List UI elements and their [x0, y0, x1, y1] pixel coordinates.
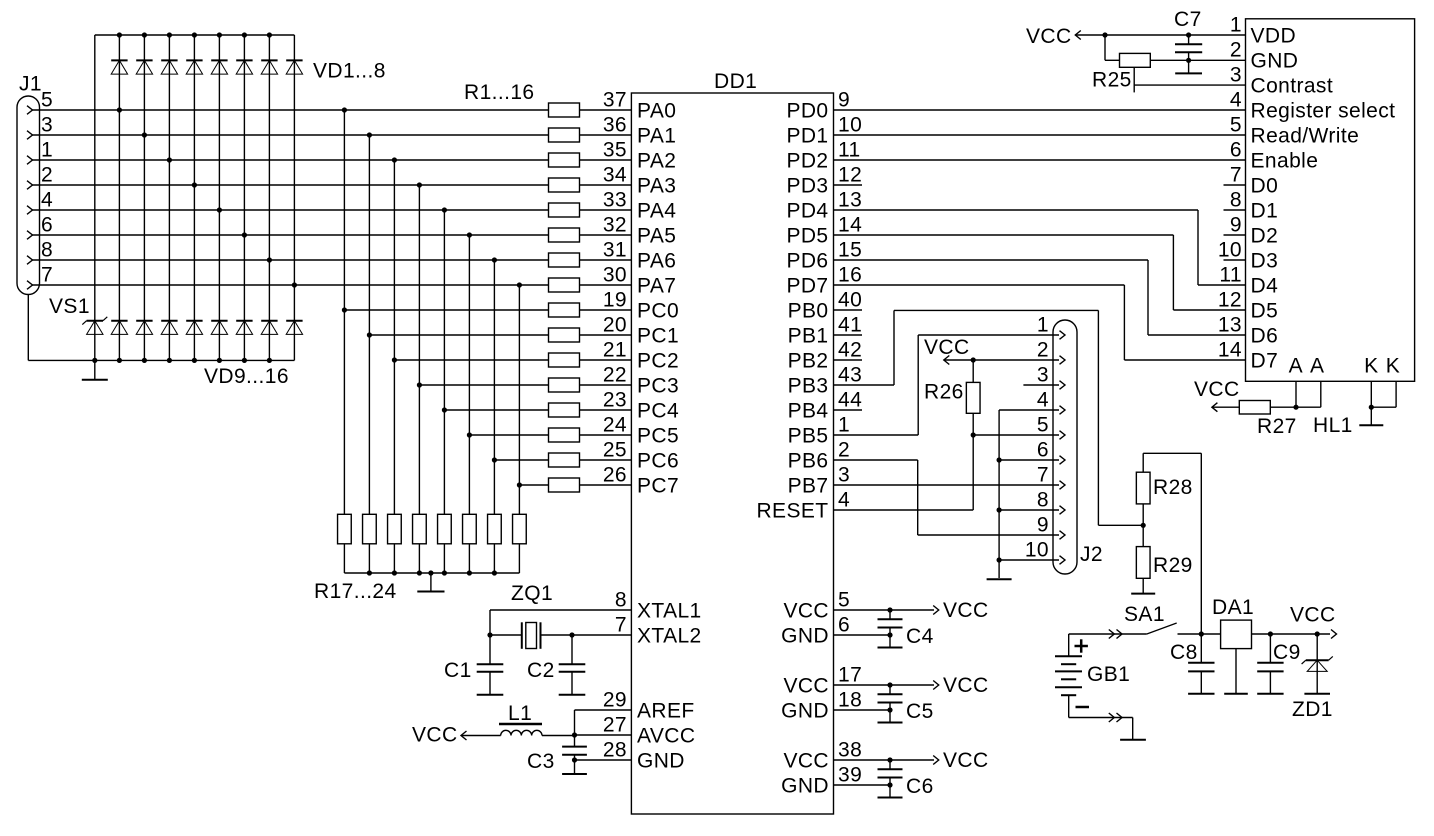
junction dots on top bus [117, 32, 272, 37]
svg-text:3: 3 [1037, 364, 1049, 387]
svg-text:10: 10 [1218, 239, 1242, 262]
battery GB1 [1055, 656, 1082, 695]
svg-text:2: 2 [1037, 339, 1049, 362]
ground at battery negative [1120, 739, 1146, 741]
J1 pin numbers 5 3 1 2 4 6 8 7 [41, 89, 53, 287]
svg-text:C1: C1 [444, 659, 472, 682]
svg-text:Contrast: Contrast [1251, 74, 1334, 97]
svg-text:D2: D2 [1251, 224, 1279, 247]
svg-text:PB7: PB7 [788, 474, 829, 497]
svg-text:3: 3 [1230, 64, 1242, 87]
wire AREF to AVCC node [575, 710, 632, 735]
LCD module body [1246, 19, 1415, 382]
svg-text:25: 25 [603, 439, 627, 462]
resistor R18 [363, 514, 377, 544]
svg-text:15: 15 [838, 239, 862, 262]
svg-text:L1: L1 [508, 702, 532, 725]
LCD pin labels [1251, 24, 1396, 372]
chip labels VCC GND [781, 674, 829, 722]
wire row PA3 [33, 182, 549, 187]
svg-text:33: 33 [603, 189, 627, 212]
connector J2 body [1053, 320, 1077, 574]
resistor R7 [549, 253, 580, 267]
wire RESET to R26 [834, 413, 974, 510]
svg-text:4: 4 [1037, 389, 1049, 412]
svg-text:2: 2 [1230, 39, 1242, 62]
svg-text:D1: D1 [1251, 199, 1279, 222]
svg-text:PA3: PA3 [637, 174, 676, 197]
wire VS1 column vertical [94, 35, 96, 380]
resistor R19 [388, 514, 402, 544]
svg-text:10: 10 [1025, 539, 1049, 562]
svg-text:VS1: VS1 [49, 295, 90, 318]
capacitor C9 [1257, 634, 1283, 671]
svg-text:PD0: PD0 [786, 99, 828, 122]
svg-text:PA6: PA6 [637, 249, 676, 272]
svg-text:PA1: PA1 [637, 124, 676, 147]
resistor R29 [1136, 547, 1150, 579]
svg-text:VCC: VCC [1026, 25, 1072, 48]
svg-text:22: 22 [603, 364, 627, 387]
wire row PA7 [33, 282, 549, 287]
wire row PA2 [33, 157, 549, 162]
wire VCC pin 5 [834, 606, 939, 615]
svg-text:D5: D5 [1251, 299, 1279, 322]
ground below C9 [1257, 671, 1283, 693]
ground below C1 [477, 672, 504, 695]
svg-text:29: 29 [603, 689, 627, 712]
wire VDD rail with VCC arrow [1075, 31, 1245, 40]
svg-text:HL1: HL1 [1313, 414, 1353, 437]
ground below C2 [559, 672, 586, 695]
wire DA1 output rail [1252, 630, 1337, 639]
svg-text:PD4: PD4 [786, 199, 828, 222]
resistor R23 [488, 514, 502, 544]
svg-text:8: 8 [615, 589, 627, 612]
wire PD0 to LCD Register select [834, 109, 1246, 111]
svg-text:8: 8 [1037, 489, 1049, 512]
wire PD4 to LCD D4 [834, 210, 1246, 285]
wire row PC7 [517, 482, 549, 487]
capacitor C5 [878, 685, 903, 710]
chip left pin numbers [603, 89, 627, 487]
capacitor C6 [878, 760, 903, 785]
svg-text:PA5: PA5 [637, 224, 676, 247]
wire row PA6 [33, 257, 549, 262]
resistor R15 [549, 453, 580, 467]
wire J2 pin5 [973, 434, 1059, 436]
resistor R9 [549, 303, 580, 317]
svg-text:SA1: SA1 [1124, 603, 1165, 626]
capacitor C7 [1175, 35, 1202, 60]
svg-text:PB0: PB0 [788, 299, 829, 322]
ground below C7 [1175, 60, 1202, 73]
crystal ZQ1 [522, 622, 541, 649]
inductor L1 [501, 730, 542, 735]
wire PD1 to LCD Read/Write [834, 134, 1246, 136]
svg-text:A: A [1289, 355, 1303, 378]
R25 wiper to Contrast [1134, 67, 1245, 92]
svg-text:D0: D0 [1251, 174, 1279, 197]
svg-text:R25: R25 [1092, 69, 1132, 92]
svg-text:D7: D7 [1251, 349, 1279, 372]
capacitor C8 [1188, 634, 1214, 671]
svg-text:VCC: VCC [943, 599, 989, 622]
wire SA1 to regulator rail [1178, 631, 1221, 636]
ground below J2 chain [987, 578, 1012, 580]
svg-text:7: 7 [1230, 164, 1242, 187]
svg-text:PD7: PD7 [786, 274, 828, 297]
svg-text:2: 2 [41, 164, 53, 187]
wire row PC0 [342, 307, 549, 312]
resistor R26 [966, 382, 980, 413]
svg-text:VD1...8: VD1...8 [313, 60, 386, 83]
wire J2 pin4/6/8/10 ground chain [997, 410, 1060, 578]
wire row PC5 [467, 432, 549, 437]
wire PD7 to LCD D7 [834, 285, 1246, 360]
battery negative wire with connector arrows [1069, 695, 1133, 739]
svg-text:10: 10 [838, 114, 862, 137]
wire row PA5 [33, 232, 549, 237]
wire R28/R29 junction [1141, 504, 1146, 547]
svg-text:DD1: DD1 [714, 70, 757, 93]
svg-text:7: 7 [615, 614, 627, 637]
svg-text:K: K [1386, 355, 1400, 378]
svg-text:R1...16: R1...16 [464, 81, 535, 104]
svg-text:11: 11 [1219, 264, 1242, 287]
svg-text:PB4: PB4 [788, 399, 829, 422]
resistor R2 [549, 128, 580, 142]
svg-text:39: 39 [838, 764, 862, 787]
IC DD1 (microcontroller) body [631, 93, 833, 814]
capacitor C1 [477, 635, 504, 672]
svg-text:ZD1: ZD1 [1292, 698, 1333, 721]
svg-text:GND: GND [781, 624, 829, 647]
wire AVCC [572, 732, 632, 737]
svg-text:6: 6 [838, 614, 850, 637]
ground below C5 [878, 710, 903, 723]
regulator DA1 body [1221, 620, 1252, 649]
diode VS1 with bent-bar marks [87, 321, 103, 335]
svg-text:5: 5 [838, 589, 850, 612]
node left of crystal [487, 632, 521, 637]
resistor R6 [549, 228, 580, 242]
chip right port labels [756, 99, 828, 522]
svg-text:PB1: PB1 [788, 324, 829, 347]
svg-text:VCC: VCC [1290, 604, 1336, 627]
svg-text:VCC: VCC [783, 749, 829, 772]
bottom cathode bus [28, 359, 294, 361]
svg-text:C5: C5 [906, 700, 934, 723]
battery positive wire with connector arrows [1069, 630, 1147, 657]
resistor R13 [549, 403, 580, 417]
svg-text:Enable: Enable [1251, 149, 1319, 172]
svg-text:1: 1 [1037, 314, 1049, 337]
svg-text:11: 11 [838, 139, 861, 162]
svg-text:C8: C8 [1170, 641, 1198, 664]
backlight anode pins to R27 [1270, 381, 1321, 410]
svg-text:D4: D4 [1251, 274, 1279, 297]
svg-text:C9: C9 [1273, 641, 1301, 664]
svg-text:R27: R27 [1257, 415, 1297, 438]
svg-text:VCC: VCC [412, 724, 458, 747]
junction dot R26/RESET/J2 pin5 [971, 432, 976, 437]
svg-text:PB5: PB5 [788, 424, 829, 447]
svg-text:PD6: PD6 [786, 249, 828, 272]
svg-text:PB2: PB2 [788, 349, 829, 372]
svg-text:PC7: PC7 [637, 474, 679, 497]
pulldown bottom bus [344, 570, 519, 575]
wire GND pin 6 [834, 632, 893, 637]
svg-text:DA1: DA1 [1212, 596, 1254, 619]
svg-text:31: 31 [603, 239, 627, 262]
svg-text:VCC: VCC [1194, 378, 1240, 401]
svg-text:24: 24 [603, 414, 627, 437]
svg-text:14: 14 [838, 214, 862, 237]
svg-text:VD9...16: VD9...16 [204, 365, 289, 388]
svg-text:PD1: PD1 [786, 124, 828, 147]
svg-text:J2: J2 [1080, 543, 1103, 566]
zener diode ZD1 [1302, 634, 1333, 671]
LCD pin numbers 1-14 [1218, 14, 1242, 362]
chip pin numbers XTAL/AREF/AVCC/GND [603, 589, 627, 762]
svg-text:PC1: PC1 [637, 324, 679, 347]
wire R26 top to VCC line / J2 pin2 [944, 357, 1059, 382]
svg-text:36: 36 [603, 114, 627, 137]
svg-text:1: 1 [41, 139, 53, 162]
wire row PA1 [33, 132, 549, 137]
wire row PC3 [417, 382, 549, 387]
resistor R14 [549, 428, 580, 442]
svg-text:VCC: VCC [924, 336, 970, 359]
svg-text:3: 3 [41, 114, 53, 137]
svg-text:AVCC: AVCC [637, 724, 695, 747]
ground below ZD1 [1304, 671, 1330, 693]
svg-text:C6: C6 [906, 775, 934, 798]
svg-text:D3: D3 [1251, 249, 1279, 272]
resistor R22 [463, 514, 477, 544]
wire row PC6 [492, 457, 549, 462]
capacitor C3 [562, 735, 587, 760]
chip labels VCC GND [781, 749, 829, 797]
DA1 ground pin [1224, 649, 1248, 694]
svg-text:9: 9 [1037, 514, 1049, 537]
resistor R16 [549, 478, 580, 492]
LCD n.c. pin stubs 7 8 9 10 [1224, 185, 1246, 260]
resistor R11 [549, 353, 580, 367]
ground below C8 [1188, 671, 1214, 693]
svg-text:PD3: PD3 [786, 174, 828, 197]
wire GND pin 18 [834, 707, 893, 712]
wire row PA4 [33, 207, 549, 212]
ground below R29 [1131, 578, 1155, 593]
wire chip GND pin [572, 757, 632, 762]
svg-text:40: 40 [838, 289, 862, 312]
resistor R3 [549, 153, 580, 167]
ground below C3 [562, 760, 587, 774]
resistor R5 [549, 203, 580, 217]
wire L1 to AVCC node [542, 735, 575, 737]
chip power pin numbers 5/6 [838, 589, 850, 637]
pin stubs PB0 PB1 PB2 PB4 (n.c.) [834, 310, 863, 410]
svg-text:RESET: RESET [756, 499, 828, 522]
svg-text:PD5: PD5 [786, 224, 828, 247]
wire PB6 to J2 pin9 [834, 460, 1060, 535]
svg-text:PC2: PC2 [637, 349, 679, 372]
svg-text:GND: GND [781, 774, 829, 797]
J2 pin numbers 1-10 [1025, 314, 1049, 562]
diodes VD1...8 (top row) [111, 60, 302, 74]
wires resistors to chip pins [580, 110, 632, 485]
chip right pin numbers [838, 89, 862, 512]
ground below R17...24 [417, 573, 444, 592]
svg-text:19: 19 [603, 289, 627, 312]
wire XTAL2 [541, 632, 632, 637]
plus sign [1075, 639, 1088, 652]
svg-text:13: 13 [838, 189, 862, 212]
chip labels VCC GND [781, 599, 829, 647]
svg-text:XTAL1: XTAL1 [637, 599, 702, 622]
svg-text:9: 9 [838, 89, 850, 112]
svg-text:8: 8 [1230, 189, 1242, 212]
svg-text:26: 26 [603, 464, 627, 487]
svg-text:17: 17 [838, 664, 862, 687]
svg-text:VCC: VCC [783, 599, 829, 622]
svg-text:13: 13 [1218, 314, 1242, 337]
svg-text:30: 30 [603, 264, 627, 287]
chip power pin numbers 17/18 [838, 664, 862, 712]
svg-text:PA4: PA4 [637, 199, 676, 222]
svg-text:D6: D6 [1251, 324, 1279, 347]
resistor R4 [549, 178, 580, 192]
svg-text:1: 1 [1230, 14, 1242, 37]
svg-text:R17...24: R17...24 [314, 580, 397, 603]
svg-text:PA7: PA7 [637, 274, 676, 297]
svg-text:PD2: PD2 [786, 149, 828, 172]
svg-text:14: 14 [1218, 339, 1242, 362]
wire top anode bus [95, 34, 295, 36]
svg-text:35: 35 [603, 139, 627, 162]
svg-text:C4: C4 [906, 625, 934, 648]
svg-text:5: 5 [1037, 414, 1049, 437]
pin stub PD3 (n.c.) [834, 184, 863, 186]
J1 pin chevrons [27, 106, 33, 290]
svg-text:38: 38 [838, 739, 862, 762]
svg-text:PA2: PA2 [637, 149, 676, 172]
diodes VD9...16 (bottom row) [111, 321, 302, 335]
svg-text:GND: GND [1251, 49, 1299, 72]
svg-text:C7: C7 [1174, 8, 1202, 31]
svg-text:PC3: PC3 [637, 374, 679, 397]
svg-text:GND: GND [781, 699, 829, 722]
wire row PC4 [442, 407, 549, 412]
svg-text:4: 4 [1230, 89, 1242, 112]
svg-text:41: 41 [838, 314, 862, 337]
svg-text:5: 5 [41, 89, 53, 112]
svg-text:21: 21 [603, 339, 627, 362]
svg-text:4: 4 [41, 189, 53, 212]
svg-text:PC0: PC0 [637, 299, 679, 322]
svg-text:16: 16 [838, 264, 862, 287]
resistor R17 [338, 514, 352, 544]
svg-text:37: 37 [603, 89, 627, 112]
svg-text:43: 43 [838, 364, 862, 387]
svg-text:VCC: VCC [943, 674, 989, 697]
svg-text:28: 28 [603, 739, 627, 762]
svg-text:C3: C3 [527, 750, 555, 773]
svg-text:PA0: PA0 [637, 99, 676, 122]
svg-text:PB6: PB6 [788, 449, 829, 472]
wire PD5 to LCD D5 [834, 235, 1246, 310]
svg-text:J1: J1 [19, 73, 42, 96]
resistor R8 [549, 278, 580, 292]
VCC arrow (J2 pin2) [944, 356, 950, 365]
svg-text:8: 8 [41, 239, 53, 262]
wire PB3 to R28/R29 divider [834, 310, 1144, 525]
svg-text:2: 2 [838, 439, 850, 462]
wire GND pin 39 [834, 782, 893, 787]
svg-text:23: 23 [603, 389, 627, 412]
svg-text:K: K [1364, 355, 1378, 378]
capacitor C2 [559, 635, 586, 672]
chip labels XTAL1 XTAL2 AREF AVCC GND [637, 599, 702, 772]
wire row PC2 [392, 357, 549, 362]
svg-text:Read/Write: Read/Write [1251, 124, 1360, 147]
ground below C6 [878, 785, 903, 798]
svg-text:R29: R29 [1153, 554, 1193, 577]
svg-text:6: 6 [41, 214, 53, 237]
wire J1 bottom to ground bus [27, 295, 29, 361]
resistor R1 [549, 103, 580, 117]
resistor R24 [513, 514, 527, 544]
wire PD2 to LCD Enable [834, 159, 1246, 161]
svg-text:XTAL2: XTAL2 [637, 624, 702, 647]
svg-text:GB1: GB1 [1087, 663, 1130, 686]
capacitor C4 [878, 610, 903, 635]
svg-text:3: 3 [838, 464, 850, 487]
svg-text:1: 1 [838, 414, 850, 437]
wire R28 top to battery rail [1143, 453, 1201, 634]
svg-text:42: 42 [838, 339, 862, 362]
svg-text:ZQ1: ZQ1 [511, 582, 553, 605]
resistor R27 [1239, 401, 1270, 415]
LED matrix column wires [119, 35, 294, 360]
svg-text:Register select: Register select [1251, 99, 1396, 122]
svg-text:32: 32 [603, 214, 627, 237]
wire row PA0 [33, 107, 549, 112]
svg-text:6: 6 [1037, 439, 1049, 462]
svg-text:PC6: PC6 [637, 449, 679, 472]
svg-text:9: 9 [1230, 214, 1242, 237]
resistor R21 [438, 514, 452, 544]
svg-text:7: 7 [1037, 464, 1049, 487]
connector J1 body [17, 96, 40, 295]
switch SA1 blade [1147, 623, 1177, 634]
pulldown column wires [344, 110, 519, 573]
svg-text:20: 20 [603, 314, 627, 337]
svg-text:18: 18 [838, 689, 862, 712]
J2 pin chevrons [1060, 331, 1066, 565]
wire R25 to LCD GND line [1150, 58, 1245, 63]
resistor R10 [549, 328, 580, 342]
svg-text:5: 5 [1230, 114, 1242, 137]
wire J2 pin3 stub [1023, 384, 1059, 386]
ground below HL1 cathodes [1359, 407, 1383, 425]
svg-text:PC5: PC5 [637, 424, 679, 447]
backlight cathode pins to ground [1369, 381, 1396, 410]
wire PB5 to J2 pin1 [834, 335, 1060, 435]
wire PB7 to J2 pin7 [834, 484, 1060, 486]
